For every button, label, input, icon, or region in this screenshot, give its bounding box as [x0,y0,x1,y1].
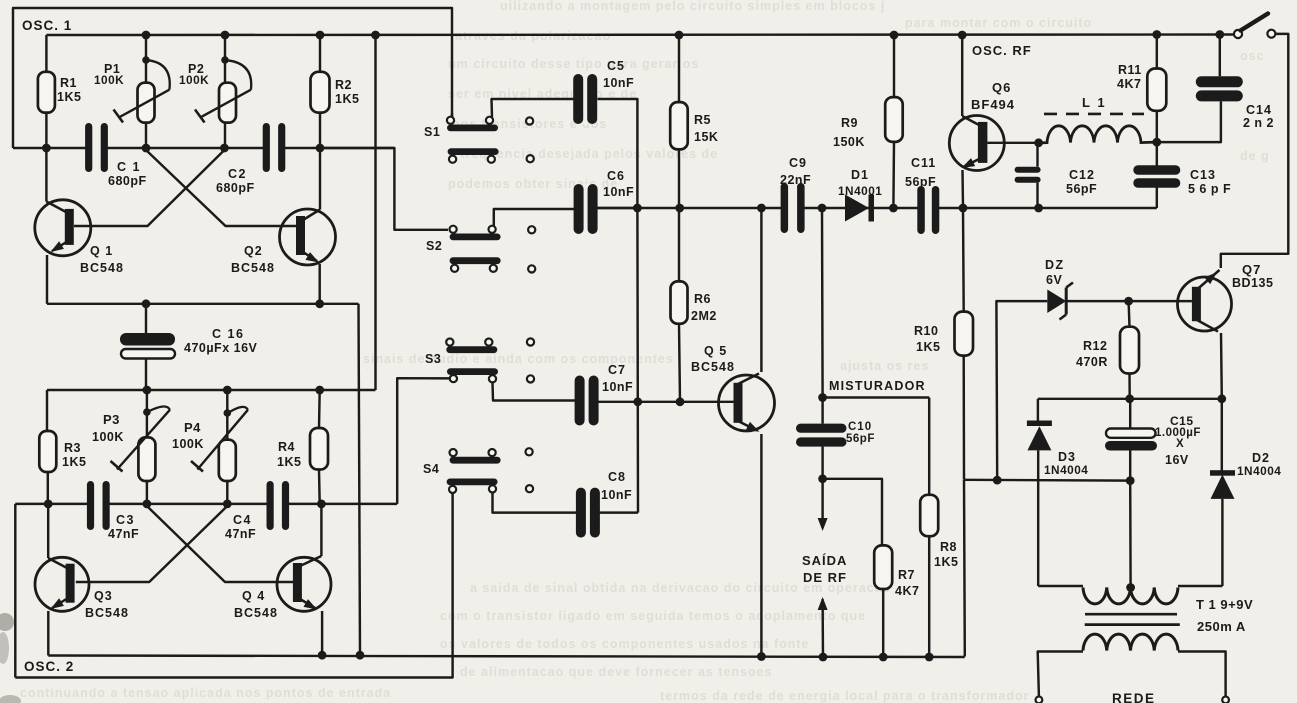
node dot OSC.2 feed on rail [371,31,380,40]
svg-text:56pF: 56pF [905,175,936,189]
switch S3 lower bar with output terminals [447,368,498,375]
wire MISTURADOR line down to R8 [928,398,930,495]
svg-text:C9: C9 [789,156,807,170]
wire +V rail to Q6 collector [961,35,963,116]
svg-text:R8: R8 [940,540,957,554]
svg-text:47nF: 47nF [225,527,256,541]
svg-text:C3: C3 [116,513,135,527]
diode D2 1N4004 [1221,399,1223,471]
svg-text:C11: C11 [911,156,936,170]
svg-text:250m A: 250m A [1197,619,1246,634]
transformer T1 secondary winding [1038,585,1083,587]
electrolytic capacitor C16 470uF [145,304,147,333]
svg-text:R9: R9 [841,116,858,130]
electrolytic capacitor C15 1000uF 16V [1129,399,1131,429]
svg-text:termos da rede de energia loca: termos da rede de energia local para o t… [660,689,1029,703]
svg-text:SAÍDA: SAÍDA [802,553,847,568]
switch S2 pole bar [450,234,501,241]
wire Q3 collector node down to S4 feed line [14,504,16,678]
resistor R1 [38,72,55,113]
svg-text:S1: S1 [424,125,440,139]
cross-coupling wire C2/P2 node to Q1 base [74,150,224,226]
capacitor C4 47nF [273,481,283,530]
OSC.1 block frame / wire from Q1 collector node to S1 [13,8,452,148]
node: R1 top [45,35,47,72]
svg-text:S4: S4 [423,462,439,476]
svg-text:R2: R2 [335,78,352,92]
svg-text:um circuito desse tipo para ge: um circuito desse tipo para gerar os [448,57,699,71]
svg-text:ajusta os res: ajusta os res [840,359,929,373]
svg-text:R5: R5 [694,113,711,127]
switch S2 second bar [450,257,501,264]
wire node to C14 bottom [1157,101,1221,142]
svg-text:uilizando a montagem pelo circ: uilizando a montagem pelo circuito simpl… [500,0,885,13]
svg-text:BD135: BD135 [1232,276,1273,290]
svg-text:1K5: 1K5 [57,90,81,104]
wire S3 output to C7 [493,382,577,400]
capacitor C6 10nF [583,184,589,234]
wire OSC.1 ground down to bottom rail [359,304,361,655]
svg-text:osc: osc [1240,49,1265,63]
cross-coupling wire C1/P1 node to Q2 base [146,150,296,226]
svg-text:5 6 p F: 5 6 p F [1188,182,1231,196]
svg-text:C7: C7 [608,363,626,377]
switch S1 spare terminals [526,117,533,124]
resistor R12 470R [1120,327,1139,374]
svg-text:C15: C15 [1170,414,1194,428]
transistor Q7 BD135 [1178,277,1232,331]
bottom ground rail [48,656,965,658]
svg-text:C4: C4 [233,513,252,527]
svg-text:1K5: 1K5 [335,92,359,106]
resistor R2 [311,72,330,113]
svg-text:1N4001: 1N4001 [838,184,882,198]
svg-text:continuando a tensao aplicada: continuando a tensao aplicada nos pontos… [20,686,391,700]
switch S4 pole bar [450,457,501,464]
svg-text:R11: R11 [1118,63,1142,77]
svg-text:1N4004: 1N4004 [1237,464,1281,478]
svg-text:100K: 100K [179,73,209,87]
capacitor C11 56pF [924,186,933,234]
svg-text:10nF: 10nF [601,488,632,502]
svg-text:150K: 150K [833,135,865,149]
base wire DZ node to Q7 [1129,300,1192,302]
svg-text:OSC. RF: OSC. RF [972,43,1032,58]
svg-text:2 n 2: 2 n 2 [1243,116,1274,130]
svg-text:D2: D2 [1252,451,1270,465]
node dot C14 top on rail [1215,30,1224,39]
cross-coupling wire P4/C4 node to Q3 base [76,506,228,582]
switch S4 spare terminals [526,448,533,455]
capacitor C8 10nF [585,488,591,538]
node dot R2 top on rail [316,31,325,40]
svg-text:4K7: 4K7 [1117,77,1141,91]
switch S4 lower bar with output terminals [447,479,498,486]
svg-text:Q 5: Q 5 [704,344,727,358]
capacitor C13 56pF [1156,142,1158,165]
potentiometer P3 [146,390,148,437]
OSC.1 emitter/ground line [47,303,359,305]
wire C5 to bus [598,99,638,208]
svg-text:10nF: 10nF [603,185,634,199]
svg-text:1N4004: 1N4004 [1044,463,1088,477]
transistor Q3 BC548 [35,557,89,611]
svg-text:BC548: BC548 [231,261,275,275]
svg-text:22nF: 22nF [780,173,811,187]
wire R10 bottom to ground rail corner [963,480,966,657]
svg-text:BC548: BC548 [80,261,124,275]
potentiometer P4 [226,390,228,440]
svg-text:C8: C8 [608,470,626,484]
svg-text:Q6: Q6 [992,80,1011,95]
wire S4 output to C8 [493,493,579,513]
T1 center tap [1126,583,1135,592]
svg-text:DZ: DZ [1045,258,1065,272]
svg-text:S3: S3 [425,352,441,366]
capacitor C14 2n2 [1219,35,1221,77]
svg-text:R4: R4 [278,440,295,454]
node dot P2 top on rail [221,31,230,40]
output arrow down (SAIDA DE RF) [821,479,823,528]
svg-text:BC548: BC548 [234,606,278,620]
resistor R4 [310,428,328,470]
svg-text:680pF: 680pF [108,174,147,188]
transistor Q2 BC548 [280,209,336,265]
svg-text:C12: C12 [1069,168,1095,182]
resistor R3 [39,431,56,472]
svg-text:OSC. 2: OSC. 2 [24,659,74,674]
capacitor C7 10nF [584,376,590,426]
svg-text:Q2: Q2 [244,244,263,258]
wire S1 input from OSC.1 [451,114,453,118]
transistor Q5 BC548 [719,375,775,431]
svg-text:6V: 6V [1046,273,1062,287]
svg-text:OSC. 1: OSC. 1 [22,18,72,33]
wire switch to Q7 emitter [1221,34,1289,268]
resistor R7 4K7 [874,545,892,589]
svg-text:10nF: 10nF [602,380,633,394]
switch S1 second bar [448,148,499,155]
svg-text:R6: R6 [694,292,711,306]
node R11/L1/C13/C14 [1152,138,1161,147]
rectifier output node line [1038,398,1223,400]
node C10 / R7 / output [818,474,827,483]
svg-text:1K5: 1K5 [916,340,940,354]
potentiometer P1 [145,35,147,83]
resistor R8 1K5 [920,495,938,536]
svg-text:C 1: C 1 [117,160,141,174]
svg-text:REDE: REDE [1112,691,1156,703]
capacitor C3 47nF [93,481,103,530]
Q5 base line [638,401,734,403]
svg-text:R3: R3 [64,441,81,455]
node dot R9 top on rail [890,31,899,40]
svg-text:R10: R10 [914,324,938,338]
resistor R5 15K [670,102,688,149]
mixer collector line [597,207,1157,209]
svg-text:16V: 16V [1165,453,1189,467]
svg-text:470R: 470R [1076,355,1108,369]
inductor L1 [1039,126,1157,143]
diode D1 1N4001 [845,195,869,222]
svg-text:X: X [1176,438,1184,450]
capacitor C2 680pF [269,123,279,172]
switch S1 pole bar [447,125,498,132]
MISTURADOR node line [823,396,930,398]
output arrow up from ground [818,597,828,610]
transistor Q4 BC548 [277,557,331,611]
svg-text:para montar com o circuito: para montar com o circuito [905,16,1092,30]
svg-text:C13: C13 [1190,168,1216,182]
svg-text:Q7: Q7 [1242,262,1261,277]
ground line (C15- / center tap / DZ / bottom rail) [964,479,1130,482]
svg-text:de g: de g [1240,149,1270,163]
power switch (interruptor) [1234,30,1242,38]
svg-text:BF494: BF494 [971,97,1015,112]
svg-text:P4: P4 [184,420,201,435]
wire C7 to Q5 base line [597,401,638,403]
svg-text:BC548: BC548 [85,606,129,620]
wire R1 bottom to node [45,113,47,148]
switch S2 spare terminals [528,226,535,233]
capacitor C9 22nF [787,183,798,233]
svg-text:R7: R7 [898,568,915,582]
svg-text:680pF: 680pF [216,181,255,195]
svg-text:DE RF: DE RF [803,570,847,585]
vertical bus joining C5/C6/C7/C8 [636,208,639,513]
svg-text:C14: C14 [1246,103,1272,117]
main +V rail (top) [46,33,1234,36]
svg-text:2M2: 2M2 [691,309,717,323]
capacitor C5 10nF [582,74,588,124]
svg-text:os valores de todos os compone: os valores de todos os componentes usado… [440,637,810,651]
svg-text:D3: D3 [1058,450,1076,464]
OSC.2 collector node line [15,503,397,505]
node dot R11 top on rail [1152,30,1161,39]
svg-text:15K: 15K [694,130,718,144]
svg-text:100K: 100K [172,437,204,451]
transistor Q6 BF494 [949,116,1004,171]
T1 primary right lead to mains terminal [1178,652,1226,697]
cross-coupling wire C3/P3 node to Q4 base [147,506,294,582]
capacitor C10 56pF [821,398,823,424]
svg-text:1K5: 1K5 [934,555,958,569]
T1 primary left lead to mains terminal [1038,652,1083,697]
T1 core [1085,613,1177,616]
wire +V rail down to OSC.2 supply line [374,35,376,390]
svg-text:L 1: L 1 [1082,95,1107,110]
transistor Q1 BC548 [35,200,91,256]
svg-text:T 1 9+9V: T 1 9+9V [1196,597,1253,612]
wire mixer line branch down (MISTURADOR) [821,208,824,398]
capacitor C12 56pF [1036,143,1038,167]
svg-text:47nF: 47nF [108,527,139,541]
node dot Q6 collector on rail [958,31,967,40]
svg-text:Q3: Q3 [94,589,113,603]
wire S2 input from OSC.1 [320,148,448,230]
svg-text:C6: C6 [607,169,625,183]
svg-text:100K: 100K [92,430,124,444]
node dot R5 top on rail [675,31,684,40]
wire C8 right plate to vertical bus [597,511,638,513]
svg-text:com o transistor ligado em seg: com o transistor ligado em seguida temos… [440,609,866,623]
svg-text:56pF: 56pF [1066,182,1097,196]
resistor R11 4K7 [1147,69,1166,111]
svg-text:Q 1: Q 1 [90,244,113,258]
svg-text:10nF: 10nF [603,76,634,90]
svg-text:1K5: 1K5 [277,455,301,469]
resistor R9 150K [885,97,903,142]
Q6 base wire [987,142,1038,144]
svg-text:R12: R12 [1083,339,1107,353]
svg-text:S2: S2 [426,239,442,253]
L1 core dashed line [1044,113,1144,116]
resistor R10 1K5 [955,312,974,356]
wire S3 input from OSC.2 [397,378,450,504]
svg-text:MISTURADOR: MISTURADOR [829,379,926,393]
svg-text:BC548: BC548 [691,360,735,374]
potentiometer P2 [224,35,226,83]
svg-text:de alimentacao que deve fornec: de alimentacao que deve fornecer as tens… [460,665,773,679]
svg-text:C2: C2 [228,167,247,181]
diode D3 1N4004 [1037,399,1039,421]
wire S1 output to C5 [492,99,575,117]
svg-text:P3: P3 [103,412,120,427]
svg-text:C 16: C 16 [212,327,244,341]
svg-text:470µFx 16V: 470µFx 16V [184,341,258,355]
zener diode DZ 6V [996,301,1047,480]
svg-text:R1: R1 [60,76,77,90]
switch S3 spare terminals [527,338,534,345]
S4 feed line (OSC.2 output) and riser to S4 [15,493,452,677]
svg-text:C10: C10 [848,421,872,433]
svg-text:1K5: 1K5 [62,455,86,469]
svg-text:56pF: 56pF [846,433,875,445]
node Q6 base / L1 / C12 [1034,138,1043,147]
node dot P1 top on rail [142,31,151,40]
switch S3 pole bar [446,346,497,353]
svg-text:4K7: 4K7 [895,584,919,598]
svg-text:Q 4: Q 4 [242,589,265,603]
svg-text:D1: D1 [851,168,869,182]
resistor R6 2M2 [671,281,688,323]
svg-text:100K: 100K [94,73,124,87]
OSC.1 upper node line (R1/C1/P1/C2/R2) [13,147,394,149]
capacitor C1 680pF [91,123,101,172]
transformer T1 primary winding [1083,634,1178,650]
OSC.2 supply line [47,389,376,391]
svg-text:sinais de audio e ainda com os: sinais de audio e ainda com os component… [363,352,674,366]
wire to R7 [823,479,882,546]
svg-text:C5: C5 [607,59,625,73]
wire C6 right plate to bus line [597,207,638,209]
wire S2 output to C6 [494,209,575,226]
